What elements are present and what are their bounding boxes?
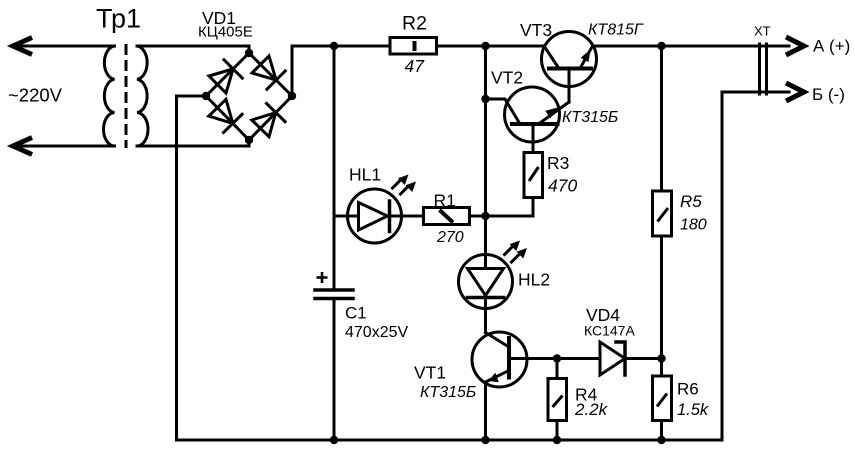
node VT1 emitter bottom [481,436,489,444]
resistor R4 bottom lead [556,421,559,441]
node VT3 rail [481,42,489,50]
transistor VT1 emitter lead down [484,382,487,440]
node bridge top [245,49,253,57]
transistor VT2 collector wire [486,99,521,124]
resistor R5 [653,191,672,236]
transistor VT3 base bar [549,67,591,71]
transformer T1 core [125,44,128,148]
diode VD1 top-left [209,60,242,93]
resistor R2 [390,38,437,55]
svg-text:VT1: VT1 [414,363,446,383]
node R6 bottom [657,436,665,444]
svg-text:470: 470 [548,176,577,196]
zener VD4 cathode bar with tick [616,342,625,375]
LED HL2 [459,255,513,309]
resistor R5 mark [658,208,669,222]
svg-text:R6: R6 [677,380,699,399]
wire secondary bottom to bridge [137,140,249,146]
transistor VT2 [505,87,560,142]
svg-text:180: 180 [680,217,707,234]
LED HL2 emission arrows [505,247,520,262]
LED HL2 cathode bar [468,296,504,300]
wire bridge left vertex to ground column [177,95,207,98]
resistor R3 mark [529,167,539,181]
LED HL2 internal leads [484,255,487,269]
arrow AC top-left [13,38,32,55]
LED HL1 cathode bar [388,201,392,232]
svg-text:270: 270 [436,229,464,246]
transistor VT1 collector [486,333,510,348]
transistor VT1 base lead [509,357,557,360]
node bridge bottom [245,136,253,144]
resistor R6 [653,376,672,421]
resistor R3 [524,153,543,198]
resistor R6 mark [657,394,667,407]
node R5 rail [657,42,665,50]
resistor R1 mark [440,210,454,223]
LED HL1 anode wire [334,215,359,218]
svg-text:КЦ405Е: КЦ405Е [198,24,253,41]
transformer T1 primary winding [104,46,115,146]
transistor VT3 emitter [580,46,593,69]
node C1 bottom [330,436,338,444]
wire VT1 base to VD4 [557,357,600,360]
svg-text:R3: R3 [547,153,569,173]
resistor R6 bottom lead [660,421,663,441]
capacitor C1 top lead [333,46,336,289]
arrow AC bottom-left [13,138,32,155]
transistor VT1 emitter arrow [489,373,499,383]
transistor VT3 base lead [568,69,571,103]
svg-text:470x25V: 470x25V [345,324,408,341]
LED HL1 triangle [359,203,388,231]
node C1 top [330,42,338,50]
diode VD1 top-right [252,56,285,89]
svg-text:HL2: HL2 [518,270,550,290]
wire secondary top to bridge [137,46,249,53]
wire top rail VT3 to XT [596,45,789,48]
connector XT bars [758,44,761,94]
LED HL1 emission arrows [393,181,409,195]
bridge VD1 diamond [206,53,292,140]
transistor VT2 emitter [539,102,570,124]
svg-text:HL1: HL1 [349,165,381,185]
wire R1 to mid column [470,215,486,218]
arrow terminal B [786,83,804,101]
wire right vertical from B terminal [721,92,724,440]
svg-text:А (+): А (+) [813,37,850,56]
transistor VT2 emitter arrow [545,108,557,119]
svg-text:КТ315Б: КТ315Б [420,384,476,401]
diode VD1 bottom-right [252,104,285,137]
transistor VT1 base bar [507,338,511,378]
svg-text:~220V: ~220V [8,85,63,106]
transistor VT2 base lead [532,124,535,153]
zener diode VD4 [600,342,625,375]
svg-text:КТ315Б: КТ315Б [562,109,618,126]
svg-text:R2: R2 [402,13,427,35]
wire VD4 to R6 column [625,357,662,360]
node VD4 R5 R6 [657,354,665,362]
wire bridge right vertex up [291,46,294,96]
svg-text:1.5k: 1.5k [677,401,709,419]
transistor VT1 emitter [486,371,510,383]
LED HL2 triangle [468,269,504,296]
svg-text:47: 47 [405,56,426,76]
node VT2 collector [481,95,489,103]
transistor VT3 emitter arrow [581,50,591,63]
wire mid vertical column [484,46,487,255]
diode VD1 bottom-left [209,99,242,132]
svg-text:2.2k: 2.2k [574,400,609,419]
node bridge right [288,92,296,100]
node R1 right [481,212,489,220]
capacitor C1 plates [315,288,353,292]
wire left vertical down [175,96,178,440]
wire R5 to VD4 node [660,236,663,359]
wire bottom rail [177,439,723,442]
svg-text:VT3: VT3 [520,20,552,40]
LED HL1 wire to R1 [390,215,424,218]
resistor R4 mark [553,396,563,408]
wire AC bottom-left [13,145,115,148]
LED HL1 [348,189,402,243]
resistor R4 [548,379,567,421]
svg-text:Тр1: Тр1 [96,4,141,34]
node bridge left [202,92,210,100]
svg-text:R5: R5 [680,192,702,211]
wire terminal B [722,91,789,94]
svg-text:КТ815Г: КТ815Г [588,22,644,39]
resistor R4 top lead [556,359,559,379]
svg-text:VT2: VT2 [491,68,523,88]
resistor R2 power mark [413,41,417,51]
resistor R1 [424,208,470,225]
resistor R3 bottom lead [486,198,534,217]
capacitor C1 plus sign [317,272,328,283]
transistor VT1 [472,332,527,387]
svg-text:R1: R1 [434,191,456,211]
svg-text:ХТ: ХТ [754,24,771,39]
node VT1 base R4 [553,354,561,362]
transistor VT3 collector [544,46,559,69]
transistor VT3 [542,32,597,87]
wire AC top-left [13,45,115,48]
wire R2 to VT3 [437,45,544,48]
svg-text:C1: C1 [345,304,367,323]
transistor VT2 base bar [512,122,558,126]
transformer T1 secondary winding [137,46,148,146]
arrow terminal A [786,37,804,55]
svg-text:Б (-): Б (-) [812,85,845,104]
wire top rail to R2 [292,45,390,48]
capacitor C1 bottom lead [333,300,336,440]
node R4 bottom [553,436,561,444]
wire R5 column top [660,46,663,191]
wire R6 top lead [660,359,663,377]
svg-text:КС147А: КС147А [584,323,635,339]
